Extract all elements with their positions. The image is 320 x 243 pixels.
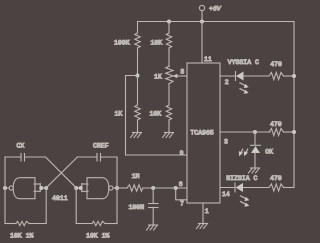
wire 470 to rail row1 — [284, 75, 295, 77]
wire pin 3 row — [220, 131, 255, 133]
op-amp U1 TCA965 window comparator box — [187, 63, 220, 203]
node supply junction pin11 — [200, 20, 204, 24]
wire 10K to pot — [168, 48, 170, 66]
resistor 1M — [117, 185, 187, 191]
resistor 470 row2 — [269, 129, 284, 136]
svg-text:470: 470 — [270, 121, 282, 128]
wire pin 7 step — [176, 188, 187, 200]
wire CX diagonal to N2 input — [46, 157, 77, 188]
wire 470 to rail row2 — [284, 131, 295, 133]
terminal +6V — [199, 5, 204, 10]
wire pin 14 to LED — [220, 187, 235, 189]
wire junction down to LED OK — [254, 132, 256, 145]
resistor 10K lower — [166, 105, 171, 120]
svg-text:9: 9 — [180, 150, 184, 157]
wire top supply rail — [138, 21, 295, 23]
resistor 1K lower-left — [135, 105, 140, 120]
resistor 10K upper — [166, 33, 171, 48]
wire node A to pin 9 — [126, 76, 188, 156]
svg-text:TCA965: TCA965 — [190, 130, 214, 137]
svg-text:470: 470 — [270, 175, 282, 182]
LED VYSSIA C — [236, 72, 244, 81]
LED light arrows NIZSIA — [241, 196, 250, 207]
wire 10K column top — [168, 22, 170, 34]
gate N2 4011 (faces right) — [87, 178, 109, 199]
node pin3 junction — [253, 130, 257, 134]
gate N1 input stubs — [34, 184, 46, 192]
svg-text:10K 1%: 10K 1% — [10, 233, 34, 240]
svg-text:10K: 10K — [150, 110, 162, 117]
resistor 10K 1% right — [76, 188, 117, 226]
wire right inner vertical (CREF to output to resistor) — [116, 157, 118, 224]
wire 1K to ground — [137, 120, 139, 133]
svg-text:10K: 10K — [151, 40, 163, 47]
svg-text:1K: 1K — [115, 111, 123, 118]
svg-text:2: 2 — [225, 79, 229, 86]
node supply junction 10K — [167, 20, 171, 24]
ground pin1 — [197, 224, 208, 229]
wire LED to 470 row1 — [244, 75, 270, 77]
resistor 10K 1% left — [5, 188, 46, 226]
svg-text:470: 470 — [270, 61, 282, 68]
wire pin 1 to ground — [202, 203, 204, 224]
gate N1 4011 (faces left) — [13, 178, 35, 199]
wire pot to 10K lower — [168, 84, 170, 106]
svg-text:1: 1 — [205, 208, 209, 215]
wire 100K column top — [137, 22, 139, 34]
svg-text:14: 14 — [222, 191, 230, 198]
resistor 470 row1 — [269, 73, 284, 80]
node N1 input — [39, 186, 43, 190]
svg-text:OK: OK — [265, 148, 273, 155]
gate N1 output bubble — [9, 186, 13, 190]
node divider A — [136, 74, 140, 78]
svg-text:1M: 1M — [132, 173, 140, 180]
capacitor CX — [5, 154, 46, 162]
resistor 470 row3 — [269, 184, 284, 191]
svg-text:7: 7 — [180, 200, 184, 207]
ground under 100N — [147, 225, 158, 230]
capacitor 100N — [149, 188, 159, 225]
ground under LED OK — [249, 168, 260, 173]
node N1 output — [3, 186, 7, 190]
LED light arrows OK — [239, 149, 248, 156]
svg-text:100K: 100K — [114, 40, 130, 47]
svg-text:CX: CX — [17, 143, 25, 150]
wire pin 2 to LED — [220, 75, 236, 77]
svg-text:10K 1%: 10K 1% — [86, 233, 110, 240]
wire LED OK to ground — [254, 153, 256, 168]
wire 470 to rail row3 — [284, 187, 295, 189]
wiper arrow to pin 8 — [177, 75, 187, 77]
svg-text:+6V: +6V — [209, 6, 222, 13]
svg-text:4011: 4011 — [52, 195, 68, 202]
ground under lower 10K — [163, 133, 174, 138]
ground under 1K — [131, 133, 142, 138]
node rail row2 — [292, 130, 296, 134]
LED NIZSIA C — [235, 183, 243, 192]
svg-text:1K: 1K — [154, 74, 162, 81]
wire right supply rail — [293, 22, 295, 188]
svg-text:100N: 100N — [129, 204, 145, 211]
resistor 100K — [135, 33, 140, 48]
capacitor CREF — [77, 154, 117, 162]
svg-text:CREF: CREF — [93, 143, 109, 150]
wire 10K to ground — [168, 120, 170, 133]
node pin 6/7 junction — [174, 186, 178, 190]
node N2 input — [74, 186, 78, 190]
LED OK — [251, 145, 261, 153]
wire pin 11 — [201, 22, 203, 64]
wire junction to 470 row2 — [255, 131, 270, 133]
svg-text:NIZSIA C: NIZSIA C — [226, 175, 257, 182]
wire 100K to node — [137, 48, 139, 105]
svg-text:3: 3 — [224, 139, 228, 146]
svg-text:8: 8 — [180, 68, 184, 75]
wire left outer vertical — [4, 157, 6, 224]
gate N2 output bubble — [109, 186, 113, 190]
node rail row1 — [292, 74, 296, 78]
gate N2 input stubs — [76, 184, 88, 192]
LED light arrows VYSSIA — [240, 83, 249, 94]
node 100N junction — [151, 186, 155, 190]
wire +6V stub — [201, 11, 203, 22]
wire N1 bubble stub — [5, 187, 9, 189]
wire N2 bubble stub — [113, 187, 117, 189]
svg-text:6: 6 — [179, 181, 183, 188]
svg-text:11: 11 — [204, 56, 212, 63]
svg-text:VYSSIA C: VYSSIA C — [228, 59, 259, 66]
wire CREF diagonal to N1 input — [46, 157, 77, 188]
node N2 output — [115, 186, 119, 190]
wire LED to 470 row3 — [243, 187, 269, 189]
potentiometer 1K — [166, 66, 173, 84]
